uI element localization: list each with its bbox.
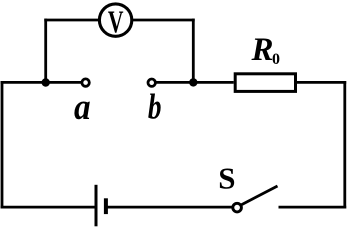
svg-text:b: b <box>148 87 162 127</box>
junction dot right (node under voltmeter right) <box>189 78 197 86</box>
svg-text:R: R <box>251 32 274 68</box>
svg-text:V: V <box>108 5 124 40</box>
wire: switch to right vertical <box>279 206 347 209</box>
battery short plate (negative) <box>104 198 108 214</box>
resistor R0 body <box>235 74 295 92</box>
wire right vertical side <box>343 81 346 209</box>
wire: terminal b to resistor <box>156 81 233 84</box>
node terminal b (open circle) <box>148 79 155 86</box>
wire loop left vertical <box>44 19 47 83</box>
battery long plate (positive) <box>95 185 98 227</box>
wire top-right horizontal (loop top, right of voltmeter) <box>133 19 195 22</box>
wire left vertical side <box>1 81 4 209</box>
junction dot left (node under voltmeter left) <box>42 78 50 86</box>
voltmeter U1 circle <box>99 4 131 36</box>
wire loop right vertical <box>192 19 195 83</box>
svg-text:a: a <box>74 87 91 128</box>
svg-text:0: 0 <box>272 51 280 68</box>
wire: resistor to right vertical <box>296 81 347 84</box>
switch S pivot (open circle) <box>233 203 242 212</box>
node terminal a (open circle) <box>82 79 89 86</box>
switch S lever <box>241 186 278 205</box>
wire main row: left edge to terminal a <box>1 81 81 84</box>
wire: battery to switch <box>106 206 232 209</box>
svg-text:S: S <box>218 161 235 196</box>
wire bottom: left edge to battery <box>1 206 96 209</box>
wire top-left horizontal (loop top, left of voltmeter) <box>44 19 99 22</box>
